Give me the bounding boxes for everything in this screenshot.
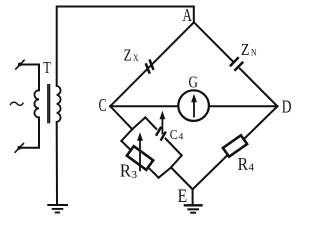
wire A-D diagonal lower segment xyxy=(240,69,278,107)
impedance ZX plates on A-C diagonal xyxy=(150,60,154,70)
AC source tilde xyxy=(10,102,23,105)
svg-text:C: C xyxy=(170,128,178,143)
capacitor C4 arrow (adjustable) xyxy=(161,117,163,134)
wire A-D diagonal upper segment xyxy=(194,22,233,62)
transformer T secondary winding (4 bumps, bulge right) xyxy=(57,86,61,122)
svg-text:T: T xyxy=(43,58,51,77)
transformer T primary winding (3 bumps, bulge left) xyxy=(34,90,39,117)
resistor R3 box (adjustable) on lower branch xyxy=(127,146,153,170)
svg-text:G: G xyxy=(189,72,198,91)
wire T toward C4 plate xyxy=(145,117,156,128)
svg-text:C: C xyxy=(99,95,107,115)
svg-text:X: X xyxy=(133,54,138,64)
wire primary top lead xyxy=(20,65,39,91)
svg-text:Z: Z xyxy=(124,46,132,65)
ground (left, below transformer secondary) xyxy=(47,205,68,213)
wire L to W (lower branch entry) xyxy=(121,129,132,141)
svg-text:R: R xyxy=(238,154,248,174)
capacitor C4 plates on upper branch xyxy=(156,127,161,136)
wire C to split node L xyxy=(110,106,132,129)
wire W-B lower branch through R3 xyxy=(121,141,158,178)
wire L to T (upper branch entry) xyxy=(132,117,145,129)
svg-text:4: 4 xyxy=(179,133,184,143)
svg-text:N: N xyxy=(251,49,257,59)
wire A-C diagonal xyxy=(110,22,194,106)
source terminal bottom (dot + slash) xyxy=(17,146,21,150)
resistor R3 arrow (adjustable) xyxy=(139,139,141,172)
svg-text:4: 4 xyxy=(249,162,255,174)
wire M to E xyxy=(171,168,193,190)
wire E ground stub xyxy=(192,189,194,204)
svg-text:A: A xyxy=(183,5,193,25)
wire B to merge node M xyxy=(159,168,171,178)
resistor R4 box on D-E diagonal xyxy=(223,135,247,156)
svg-text:E: E xyxy=(178,187,188,207)
svg-text:R: R xyxy=(120,161,131,181)
wire D-E diagonal xyxy=(193,106,278,189)
source terminal top (dot + slash) xyxy=(18,63,22,67)
wire primary bottom lead xyxy=(19,117,39,147)
transformer core (two vertical bars) xyxy=(47,84,49,123)
wire C-D horizontal rail xyxy=(110,105,277,107)
svg-text:3: 3 xyxy=(131,169,138,181)
galvanometer G circle xyxy=(178,90,209,121)
svg-text:Z: Z xyxy=(241,40,250,59)
wire after C4 plate to R xyxy=(166,139,182,156)
galvanometer arrow xyxy=(193,101,195,118)
svg-text:D: D xyxy=(282,96,292,116)
impedance ZN plates on A-D diagonal xyxy=(230,57,239,66)
wire top rail from transformer secondary to A corner xyxy=(57,7,194,86)
ground (at node E) xyxy=(184,205,203,212)
wire R to merge node M xyxy=(171,155,182,167)
wire secondary bottom lead to ground xyxy=(56,122,58,204)
